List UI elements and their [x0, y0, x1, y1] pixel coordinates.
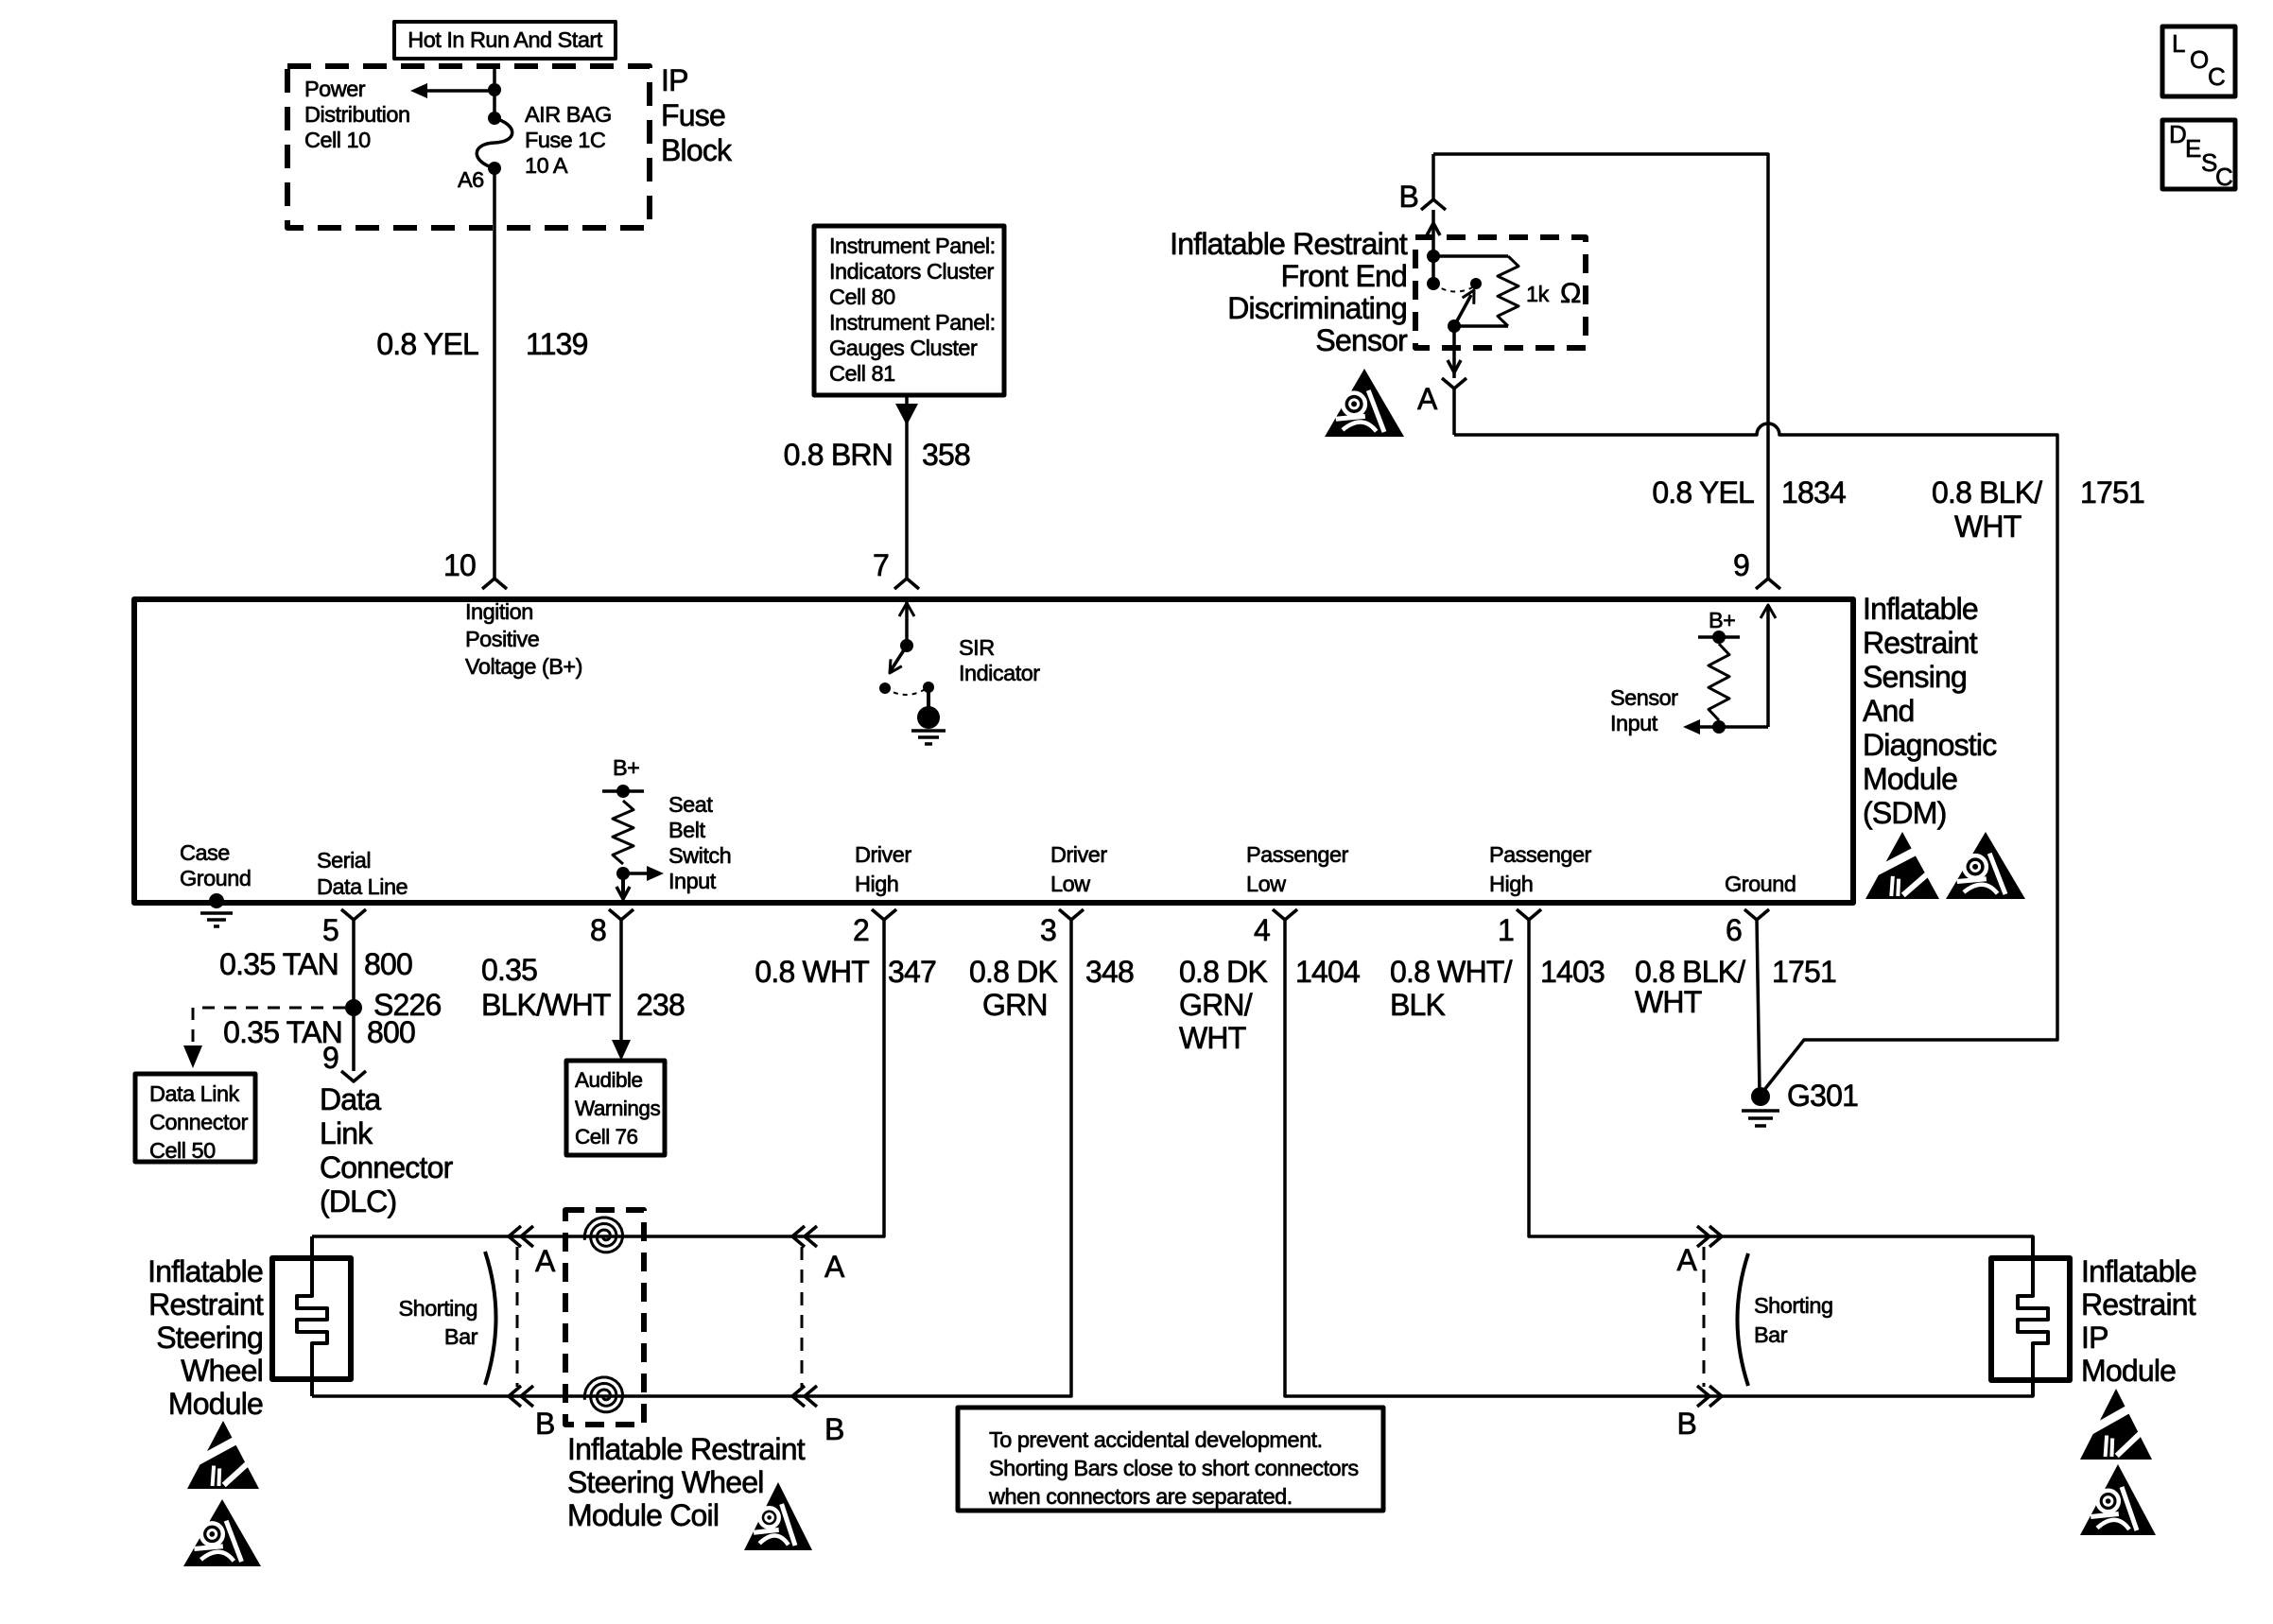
- svg-text:G301: G301: [1787, 1079, 1858, 1113]
- svg-text:To prevent accidental developm: To prevent accidental development.: [989, 1427, 1323, 1452]
- svg-text:SIR: SIR: [959, 635, 995, 660]
- svg-text:Module Coil: Module Coil: [567, 1498, 719, 1532]
- svg-text:0.8 WHT/: 0.8 WHT/: [1390, 955, 1513, 989]
- svg-text:Inflatable: Inflatable: [2081, 1254, 2196, 1288]
- svg-text:9: 9: [1733, 548, 1749, 582]
- svg-text:Warnings: Warnings: [575, 1097, 660, 1120]
- svg-text:GRN: GRN: [982, 988, 1048, 1022]
- svg-text:10 A: 10 A: [525, 153, 568, 178]
- svg-text:Cell 76: Cell 76: [575, 1125, 638, 1149]
- svg-text:Module: Module: [1863, 762, 1957, 796]
- svg-text:Shorting Bars close to short c: Shorting Bars close to short connectors: [989, 1456, 1359, 1480]
- svg-text:High: High: [855, 872, 898, 896]
- svg-text:1404: 1404: [1295, 955, 1360, 989]
- svg-text:Shorting: Shorting: [398, 1296, 477, 1321]
- svg-text:AIR BAG: AIR BAG: [525, 102, 612, 127]
- svg-text:238: 238: [636, 988, 685, 1022]
- svg-text:Input: Input: [1610, 711, 1658, 735]
- svg-text:Sensor: Sensor: [1315, 323, 1408, 357]
- svg-text:Passenger: Passenger: [1246, 842, 1349, 867]
- svg-text:Discriminating: Discriminating: [1227, 291, 1407, 325]
- svg-text:0.8 YEL: 0.8 YEL: [376, 327, 478, 361]
- svg-text:A: A: [824, 1250, 845, 1284]
- svg-text:Cell 80: Cell 80: [829, 285, 895, 309]
- svg-text:358: 358: [922, 438, 970, 472]
- svg-text:347: 347: [888, 955, 936, 989]
- svg-text:1403: 1403: [1540, 955, 1605, 989]
- svg-text:348: 348: [1085, 955, 1134, 989]
- svg-text:0.8 BLK/: 0.8 BLK/: [1932, 475, 2042, 510]
- svg-text:8: 8: [590, 913, 606, 947]
- svg-text:Inflatable: Inflatable: [147, 1254, 263, 1288]
- svg-text:Ingition: Ingition: [465, 599, 533, 624]
- svg-text:Bar: Bar: [444, 1324, 478, 1349]
- svg-text:(DLC): (DLC): [320, 1184, 396, 1218]
- svg-text:B: B: [824, 1412, 844, 1446]
- svg-text:9: 9: [322, 1041, 338, 1075]
- svg-text:Connector: Connector: [320, 1150, 454, 1184]
- svg-text:Case: Case: [180, 840, 230, 865]
- svg-text:800: 800: [364, 947, 412, 981]
- svg-text:Module: Module: [168, 1387, 263, 1421]
- svg-text:Instrument Panel:: Instrument Panel:: [829, 310, 996, 335]
- svg-text:High: High: [1489, 872, 1533, 896]
- svg-text:Low: Low: [1050, 872, 1091, 896]
- svg-text:Gauges Cluster: Gauges Cluster: [829, 336, 978, 360]
- svg-text:Sensor: Sensor: [1610, 685, 1678, 710]
- svg-text:Cell 81: Cell 81: [829, 361, 895, 386]
- svg-text:WHT: WHT: [1179, 1021, 1246, 1055]
- svg-text:1k: 1k: [1526, 282, 1550, 306]
- svg-text:Indicators Cluster: Indicators Cluster: [829, 259, 995, 284]
- svg-text:GRN/: GRN/: [1179, 988, 1253, 1022]
- svg-text:B: B: [1398, 180, 1418, 214]
- svg-text:Cell 50: Cell 50: [149, 1138, 216, 1163]
- svg-text:0.8 BRN: 0.8 BRN: [784, 438, 893, 472]
- svg-text:Cell 10: Cell 10: [304, 128, 371, 152]
- svg-text:WHT: WHT: [1635, 985, 1702, 1019]
- svg-text:Data Link: Data Link: [149, 1081, 240, 1106]
- svg-text:B+: B+: [1709, 608, 1735, 632]
- svg-text:E: E: [2185, 134, 2201, 163]
- svg-text:Driver: Driver: [855, 842, 911, 867]
- svg-text:0.8 BLK/: 0.8 BLK/: [1635, 955, 1745, 989]
- svg-text:Front End: Front End: [1281, 259, 1407, 293]
- svg-text:Inflatable: Inflatable: [1863, 592, 1978, 626]
- svg-text:1751: 1751: [1772, 955, 1836, 989]
- svg-text:A: A: [1676, 1243, 1697, 1277]
- svg-text:A: A: [1417, 382, 1438, 416]
- svg-text:Bar: Bar: [1754, 1322, 1788, 1347]
- svg-text:0.35: 0.35: [481, 953, 537, 987]
- svg-text:Steering: Steering: [156, 1321, 263, 1355]
- svg-text:0.8 DK: 0.8 DK: [969, 955, 1057, 989]
- svg-text:Diagnostic: Diagnostic: [1863, 728, 1997, 762]
- svg-text:1139: 1139: [526, 327, 588, 361]
- svg-text:(SDM): (SDM): [1863, 796, 1946, 830]
- svg-text:O: O: [2190, 45, 2209, 74]
- svg-text:0.8 DK: 0.8 DK: [1179, 955, 1267, 989]
- svg-text:Serial: Serial: [317, 848, 371, 872]
- svg-text:IP: IP: [661, 63, 688, 97]
- svg-text:1834: 1834: [1781, 475, 1846, 510]
- svg-text:Ground: Ground: [180, 866, 251, 890]
- svg-text:WHT: WHT: [1954, 510, 2021, 544]
- svg-text:C: C: [2215, 163, 2232, 191]
- svg-text:Fuse 1C: Fuse 1C: [525, 128, 606, 152]
- svg-text:Module: Module: [2081, 1354, 2176, 1388]
- svg-text:Switch: Switch: [668, 843, 731, 868]
- svg-text:6: 6: [1726, 913, 1742, 947]
- svg-text:BLK/WHT: BLK/WHT: [481, 988, 611, 1022]
- svg-text:10: 10: [443, 548, 476, 582]
- svg-text:Inflatable Restraint: Inflatable Restraint: [567, 1432, 806, 1466]
- svg-text:Indicator: Indicator: [959, 661, 1040, 685]
- svg-text:Ω: Ω: [1560, 278, 1581, 309]
- svg-text:Restraint: Restraint: [1863, 626, 1978, 660]
- svg-text:Belt: Belt: [668, 818, 705, 842]
- svg-text:0.8 YEL: 0.8 YEL: [1652, 475, 1754, 510]
- svg-text:Data Line: Data Line: [317, 874, 408, 899]
- svg-text:S226: S226: [373, 988, 442, 1022]
- svg-text:D: D: [2169, 120, 2186, 148]
- svg-text:Seat: Seat: [668, 792, 713, 817]
- svg-text:Connector: Connector: [149, 1110, 249, 1134]
- svg-text:Instrument Panel:: Instrument Panel:: [829, 233, 996, 258]
- svg-text:Distribution: Distribution: [304, 102, 410, 127]
- svg-text:Sensing: Sensing: [1863, 660, 1967, 694]
- svg-text:Driver: Driver: [1050, 842, 1107, 867]
- svg-text:Fuse: Fuse: [661, 98, 725, 132]
- svg-text:A6: A6: [458, 167, 484, 192]
- svg-text:Restraint: Restraint: [148, 1287, 264, 1322]
- svg-text:1751: 1751: [2080, 475, 2144, 510]
- svg-text:Steering Wheel: Steering Wheel: [567, 1465, 764, 1499]
- svg-text:7: 7: [873, 548, 889, 582]
- svg-text:Inflatable Restraint: Inflatable Restraint: [1170, 227, 1408, 261]
- svg-text:IP: IP: [2081, 1321, 2108, 1355]
- svg-text:Ground: Ground: [1725, 872, 1796, 896]
- svg-text:BLK: BLK: [1390, 988, 1446, 1022]
- svg-text:B+: B+: [613, 755, 639, 780]
- svg-text:B: B: [535, 1407, 555, 1441]
- svg-text:0.35 TAN: 0.35 TAN: [219, 947, 338, 981]
- svg-text:2: 2: [853, 913, 869, 947]
- svg-text:Audible: Audible: [575, 1068, 643, 1092]
- svg-text:Shorting: Shorting: [1754, 1293, 1833, 1318]
- svg-text:Voltage (B+): Voltage (B+): [465, 654, 582, 679]
- svg-text:Data: Data: [320, 1082, 381, 1116]
- svg-text:Input: Input: [668, 869, 717, 893]
- svg-text:A: A: [535, 1244, 556, 1278]
- svg-text:Positive: Positive: [465, 627, 540, 651]
- svg-text:B: B: [1676, 1407, 1696, 1441]
- svg-text:Link: Link: [320, 1116, 373, 1150]
- svg-text:C: C: [2208, 62, 2225, 91]
- svg-text:Hot In Run And Start: Hot In Run And Start: [408, 27, 603, 52]
- svg-text:Low: Low: [1246, 872, 1287, 896]
- svg-text:5: 5: [322, 913, 338, 947]
- svg-text:1: 1: [1498, 913, 1514, 947]
- svg-text:Restraint: Restraint: [2081, 1287, 2196, 1322]
- svg-text:Power: Power: [304, 77, 366, 101]
- svg-text:3: 3: [1040, 913, 1056, 947]
- svg-text:4: 4: [1254, 913, 1270, 947]
- svg-text:when connectors are separated.: when connectors are separated.: [988, 1484, 1293, 1509]
- svg-text:0.8 WHT: 0.8 WHT: [755, 955, 869, 989]
- svg-text:Passenger: Passenger: [1489, 842, 1592, 867]
- svg-text:L: L: [2172, 29, 2185, 58]
- svg-text:And: And: [1863, 694, 1915, 728]
- svg-text:Block: Block: [661, 133, 733, 167]
- svg-text:Wheel: Wheel: [181, 1354, 263, 1388]
